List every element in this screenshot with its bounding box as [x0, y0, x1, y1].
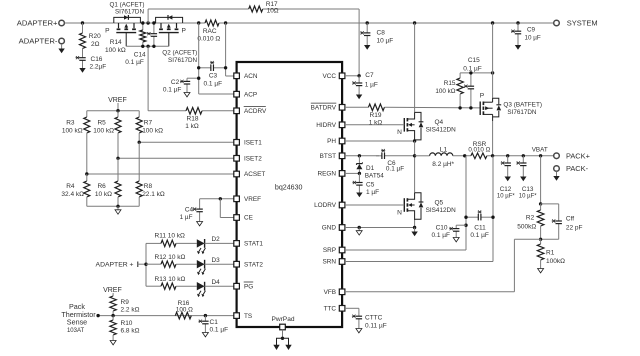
wire SRP	[345, 156, 466, 250]
wire Cff branch top	[541, 204, 559, 217]
svg-text:C9: C9	[527, 27, 536, 34]
resistor RAC	[197, 20, 220, 42]
svg-text:C12: C12	[500, 186, 512, 193]
ground (C10)	[453, 236, 459, 242]
ground (C9)	[515, 44, 521, 50]
node SRN sense junction	[491, 154, 494, 157]
pin HIDRV	[316, 122, 345, 129]
node ISET2 tap	[116, 157, 119, 160]
svg-text:ADAPTER+: ADAPTER+	[17, 19, 58, 28]
transistor Q3 (BATFET)	[480, 93, 542, 121]
svg-text:C13: C13	[522, 186, 534, 193]
pin TS	[234, 313, 252, 320]
svg-text:ACDRV: ACDRV	[244, 108, 267, 115]
svg-text:10 µF: 10 µF	[377, 37, 394, 44]
ground (R10)	[110, 339, 116, 345]
svg-text:10Ω: 10Ω	[267, 7, 279, 14]
wire VFB	[345, 239, 541, 291]
svg-text:Cff: Cff	[566, 216, 574, 223]
svg-text:R5: R5	[97, 119, 106, 126]
node C11 right junction	[491, 216, 494, 219]
wire Q3 drain	[492, 121, 494, 156]
svg-text:1 µF: 1 µF	[366, 189, 379, 196]
wire PH riser	[414, 141, 416, 193]
svg-text:TS: TS	[244, 313, 252, 320]
resistor R5	[93, 111, 121, 159]
node C8 junction	[366, 21, 369, 24]
svg-text:SRP: SRP	[323, 247, 336, 254]
svg-text:PACK+: PACK+	[566, 151, 590, 160]
transistor Q2 (ACFET)	[156, 15, 198, 64]
node adapter junction	[81, 21, 84, 24]
svg-text:R2: R2	[526, 214, 535, 221]
svg-text:P: P	[105, 27, 110, 34]
capacitor C7	[352, 72, 378, 93]
resistor R2	[517, 204, 544, 239]
node C3 left junction	[197, 66, 200, 69]
ground (ADAPTER-)	[58, 44, 64, 53]
node C2 junction	[197, 77, 200, 80]
ground (C16)	[79, 65, 85, 73]
svg-text:1 µF: 1 µF	[180, 214, 193, 221]
node GND stub junction	[358, 226, 361, 229]
pin VREF	[234, 196, 261, 203]
svg-text:Q3 (BATFET): Q3 (BATFET)	[503, 102, 542, 109]
wire RAC-right sense	[226, 23, 234, 76]
resistor R18	[185, 108, 202, 130]
svg-text:1 kΩ: 1 kΩ	[185, 123, 199, 130]
svg-text:2.2 kΩ: 2.2 kΩ	[121, 307, 140, 314]
node PH junction	[413, 139, 416, 142]
svg-text:0.1 µF: 0.1 µF	[163, 86, 182, 93]
node ADAPTER- terminal	[19, 37, 65, 46]
svg-text:0.1 µF: 0.1 µF	[470, 232, 489, 239]
pin ACN	[234, 73, 258, 80]
ground (C13)	[520, 177, 526, 182]
svg-text:Sense: Sense	[67, 318, 87, 327]
pin STAT1	[234, 241, 264, 248]
resistor R1	[537, 239, 565, 266]
svg-text:1 µF: 1 µF	[365, 82, 378, 89]
svg-text:Q5: Q5	[434, 200, 443, 207]
svg-text:22.1 kΩ: 22.1 kΩ	[142, 191, 165, 198]
ground (C8)	[364, 44, 370, 50]
svg-text:SIS412DN: SIS412DN	[426, 207, 457, 214]
capacitor C13	[516, 156, 537, 200]
pin ACDRV	[234, 107, 267, 115]
node VREF label (R9)	[103, 287, 122, 296]
resistor R13	[146, 276, 197, 290]
svg-text:R6: R6	[97, 183, 106, 190]
node SRP sense junction	[463, 154, 466, 157]
pin PH	[327, 138, 345, 145]
diode D2 (LED)	[197, 236, 234, 254]
wire RAC-left sense	[199, 23, 234, 94]
resistor R8	[136, 142, 165, 206]
svg-text:PACK-: PACK-	[566, 164, 589, 173]
wire GND	[345, 227, 415, 229]
svg-text:STAT1: STAT1	[244, 241, 263, 248]
pin STAT2	[234, 261, 264, 268]
svg-text:R8: R8	[144, 183, 153, 190]
pin GND	[322, 225, 345, 232]
wire VBAT to R2	[540, 156, 542, 204]
svg-text:VBAT: VBAT	[532, 147, 548, 154]
svg-text:R14: R14	[110, 39, 122, 46]
svg-text:C15: C15	[468, 57, 480, 64]
capacitor C16	[76, 54, 107, 70]
svg-text:R1: R1	[546, 250, 555, 257]
wire L1 to RSR	[453, 155, 471, 157]
ground (C7)	[356, 93, 362, 100]
svg-text:R10: R10	[121, 320, 133, 327]
svg-text:CE: CE	[244, 215, 253, 222]
diode D3 (LED)	[197, 257, 234, 275]
wire CE	[220, 199, 234, 218]
wire TS row	[98, 315, 234, 317]
wire Q3 riser	[492, 23, 494, 98]
svg-text:0.1 µF: 0.1 µF	[204, 80, 223, 87]
ground (C1)	[202, 331, 208, 337]
pin VFB	[324, 289, 345, 296]
node C12 junction	[506, 154, 509, 157]
pin BATDRV	[311, 103, 345, 111]
diode D1 BAT54	[356, 156, 384, 180]
node C11 left junction	[464, 216, 467, 219]
resistor R14	[105, 23, 146, 54]
svg-text:R11 10 kΩ: R11 10 kΩ	[155, 233, 186, 240]
svg-text:STAT2: STAT2	[244, 261, 263, 268]
svg-text:22 pF: 22 pF	[566, 224, 583, 231]
svg-text:CTTC: CTTC	[365, 315, 383, 322]
node PACK+ terminal	[554, 151, 590, 160]
wire gate rail	[126, 45, 169, 47]
svg-text:D4: D4	[212, 279, 221, 286]
svg-text:100 Ω: 100 Ω	[176, 306, 193, 313]
svg-text:BTST: BTST	[320, 153, 336, 160]
wire VBAT rail	[487, 155, 554, 157]
node Q3 riser junction	[491, 21, 494, 24]
svg-text:VFB: VFB	[324, 289, 336, 296]
resistor R20	[80, 23, 102, 54]
svg-text:bq24630: bq24630	[275, 184, 303, 192]
pin ACP	[234, 91, 257, 98]
svg-text:0.1 µF: 0.1 µF	[386, 166, 404, 173]
svg-text:BAT54: BAT54	[365, 173, 385, 180]
svg-text:R13 10 kΩ: R13 10 kΩ	[155, 276, 186, 283]
svg-text:C16: C16	[91, 56, 103, 63]
node C3 right junction	[224, 66, 227, 69]
svg-text:0.1 µF: 0.1 µF	[463, 65, 482, 72]
wire BATDRV	[345, 106, 480, 109]
capacitor C11	[466, 210, 493, 239]
svg-text:N: N	[397, 209, 402, 216]
wire VCC	[345, 75, 359, 77]
wire VREF pin	[200, 198, 234, 200]
wire PH to L1	[415, 155, 430, 157]
svg-text:0.010 Ω: 0.010 Ω	[468, 146, 490, 153]
svg-text:VCC: VCC	[323, 73, 337, 80]
resistor R3	[62, 111, 90, 174]
ground (CTTC)	[356, 327, 362, 333]
svg-text:R9: R9	[121, 299, 130, 306]
svg-text:R4: R4	[66, 183, 75, 190]
svg-text:100 kΩ: 100 kΩ	[105, 47, 126, 54]
ground (PwrPad)	[273, 330, 291, 350]
node Q4 riser junction	[413, 21, 416, 24]
node Q5 source junction	[413, 226, 416, 229]
pin LODRV	[314, 202, 345, 209]
svg-text:BATDRV: BATDRV	[311, 105, 337, 112]
capacitor C15	[463, 57, 482, 108]
capacitor C6	[376, 149, 415, 173]
node R9-R10 junction	[111, 314, 114, 317]
wire ADAPTER+ rail	[65, 22, 114, 24]
ground (R1)	[538, 266, 544, 273]
svg-text:ADAPTER-: ADAPTER-	[19, 37, 58, 46]
svg-text:D3: D3	[212, 257, 221, 264]
pin PwrPad	[271, 316, 294, 330]
svg-text:100 kΩ: 100 kΩ	[62, 127, 83, 134]
svg-text:RAC: RAC	[203, 28, 217, 35]
ground (C12)	[505, 177, 511, 182]
diode D4 (LED)	[197, 279, 234, 297]
svg-text:6.8 kΩ: 6.8 kΩ	[121, 327, 140, 334]
svg-text:10 kΩ: 10 kΩ	[95, 191, 112, 198]
wire BTST	[345, 155, 379, 157]
transistor Q1 (ACFET)	[105, 2, 144, 47]
svg-text:P: P	[182, 27, 187, 34]
wire system rail	[219, 22, 555, 24]
node VREF-CE junction	[219, 197, 222, 200]
capacitor C10	[431, 224, 466, 239]
wire ISET2	[118, 157, 234, 159]
node rail junctions	[141, 21, 155, 48]
wire ACSET	[87, 173, 234, 175]
wire divider top rail	[87, 110, 139, 112]
svg-text:100 kΩ: 100 kΩ	[93, 127, 114, 134]
wire common drain rail	[114, 22, 205, 24]
svg-text:SI7617DN: SI7617DN	[115, 9, 145, 16]
node VCC junction	[357, 74, 360, 77]
svg-text:ACN: ACN	[244, 73, 258, 80]
pin PG	[234, 282, 253, 290]
capacitor C9	[511, 23, 541, 44]
node R2 top junction	[539, 202, 542, 205]
node R2 bottom junction	[539, 238, 542, 241]
svg-text:0.1 µF: 0.1 µF	[210, 327, 229, 334]
node REGN junction	[358, 172, 361, 175]
resistor R7	[136, 111, 163, 143]
svg-text:R20: R20	[89, 33, 101, 40]
svg-text:8.2 µH*: 8.2 µH*	[432, 161, 454, 168]
wire SRN	[345, 156, 493, 262]
pin ISET2	[234, 156, 262, 163]
node VBAT junction	[532, 147, 548, 158]
capacitor C2	[163, 78, 199, 93]
node VREF junction	[116, 109, 119, 112]
wire HIDRV	[345, 124, 404, 126]
svg-text:SYSTEM: SYSTEM	[567, 19, 598, 28]
resistor R17	[148, 1, 359, 76]
node C9 junction	[516, 21, 519, 24]
svg-text:L1: L1	[440, 146, 448, 153]
node VREF label	[108, 97, 127, 111]
svg-text:C5: C5	[366, 182, 375, 189]
wire REGN	[345, 172, 360, 174]
pin VCC	[323, 73, 345, 80]
wire ISET1	[139, 141, 234, 143]
resistor R19	[368, 104, 384, 126]
svg-text:Q1 (ACFET): Q1 (ACFET)	[110, 2, 145, 9]
node C15 top junction	[469, 71, 472, 74]
transistor Q5	[397, 193, 456, 220]
wire R15C15 top	[460, 72, 493, 74]
resistor R10	[110, 316, 140, 339]
wire ACDRV	[148, 46, 234, 111]
svg-text:10 µF: 10 µF	[525, 35, 541, 42]
svg-text:100kΩ: 100kΩ	[546, 258, 565, 265]
svg-text:0.010 Ω: 0.010 Ω	[197, 35, 220, 42]
wire Cff branch bottom	[541, 238, 559, 240]
capacitor C14	[125, 23, 157, 66]
node ACSET tap	[85, 172, 88, 175]
svg-text:PG: PG	[244, 283, 253, 290]
svg-text:D1: D1	[366, 165, 375, 172]
svg-text:R12 10 kΩ: R12 10 kΩ	[155, 254, 186, 261]
resistor R15	[435, 73, 463, 108]
svg-text:C11: C11	[474, 224, 486, 231]
svg-text:C14: C14	[134, 51, 146, 58]
svg-text:D2: D2	[212, 236, 221, 243]
node Pack Thermistor label	[61, 302, 96, 334]
pin BTST	[320, 153, 345, 160]
wire LED rail	[145, 243, 147, 286]
node C1 junction	[204, 314, 207, 317]
pin SRN	[323, 259, 345, 266]
svg-text:C2: C2	[171, 79, 180, 86]
svg-text:GND: GND	[322, 225, 337, 232]
svg-text:R18: R18	[187, 115, 199, 122]
node divider gnd junction	[116, 205, 119, 208]
ground (C5)	[356, 191, 362, 197]
svg-text:ISET1: ISET1	[244, 140, 262, 147]
resistor R12	[146, 254, 197, 268]
svg-text:C10: C10	[436, 224, 448, 231]
node C10 tap junction	[464, 224, 467, 227]
pin ACSET	[234, 171, 266, 178]
svg-text:103AT: 103AT	[67, 328, 85, 334]
ground (GND pin)	[356, 228, 362, 236]
svg-text:10 µF*: 10 µF*	[519, 194, 537, 200]
svg-text:C8: C8	[377, 30, 386, 37]
svg-text:VREF: VREF	[244, 196, 261, 203]
svg-text:R3: R3	[66, 119, 75, 126]
svg-text:2.2µF: 2.2µF	[90, 63, 107, 70]
wire divider bottom rail	[87, 205, 139, 207]
capacitor C3	[199, 61, 226, 87]
capacitor C1	[198, 316, 228, 334]
svg-text:500kΩ: 500kΩ	[517, 223, 536, 230]
wire TTC	[345, 308, 359, 313]
svg-text:R19: R19	[370, 112, 382, 119]
svg-text:SRN: SRN	[323, 259, 337, 266]
node thermistor stub	[96, 314, 99, 317]
node SYSTEM terminal	[554, 19, 598, 28]
ground (C4)	[197, 219, 203, 226]
svg-text:0.1 µF: 0.1 µF	[125, 59, 144, 66]
pin CE	[234, 215, 253, 222]
svg-text:C3: C3	[209, 73, 218, 80]
svg-text:10 µF*: 10 µF*	[497, 194, 515, 200]
svg-text:C7: C7	[365, 72, 374, 79]
svg-text:C1: C1	[210, 319, 219, 326]
wire Q5 source	[414, 220, 416, 227]
resistor R11	[146, 233, 197, 247]
svg-text:0.11 µF: 0.11 µF	[365, 323, 387, 330]
svg-text:VREF: VREF	[103, 287, 122, 294]
svg-text:C4: C4	[185, 207, 194, 214]
svg-text:ACSET: ACSET	[244, 171, 265, 178]
svg-text:R7: R7	[144, 119, 153, 126]
svg-text:N: N	[397, 129, 402, 136]
svg-text:LODRV: LODRV	[314, 202, 337, 209]
transistor Q4	[397, 112, 456, 141]
svg-text:SI7617DN: SI7617DN	[168, 57, 198, 64]
ground (C2)	[184, 90, 190, 97]
resistor R6	[95, 158, 121, 206]
node C13 junction	[522, 154, 525, 157]
capacitor C8	[360, 23, 393, 44]
ground (divider)	[115, 206, 121, 214]
svg-text:R15: R15	[444, 80, 456, 87]
resistor R4	[61, 174, 89, 206]
node RAC-right junction	[224, 21, 227, 24]
ground (PACK-)	[553, 172, 559, 181]
pin REGN	[318, 171, 345, 178]
svg-text:ISET2: ISET2	[244, 156, 262, 163]
wire system riser to Q4	[414, 23, 416, 112]
capacitor C12	[497, 156, 515, 200]
node ADAPTER+ tap	[96, 262, 148, 269]
svg-text:HIDRV: HIDRV	[316, 122, 337, 129]
resistor R16	[175, 300, 193, 319]
svg-text:100 kΩ: 100 kΩ	[142, 127, 163, 134]
node BTST-PH junction	[413, 154, 416, 157]
svg-text:PwrPad: PwrPad	[271, 316, 294, 323]
svg-text:100 kΩ: 100 kΩ	[435, 88, 455, 95]
node RAC-left junction	[197, 21, 200, 24]
wire LODRV	[345, 204, 404, 206]
svg-text:SIS412DN: SIS412DN	[426, 127, 457, 134]
node PACK- terminal	[554, 164, 589, 173]
node R15 bottom junction	[458, 106, 461, 109]
wire PH	[345, 140, 415, 142]
svg-text:ADAPTER +: ADAPTER +	[96, 262, 134, 269]
svg-text:Q4: Q4	[434, 119, 443, 126]
node BTST junction	[358, 154, 361, 157]
svg-text:0.1 µF: 0.1 µF	[431, 232, 450, 239]
svg-text:P: P	[480, 93, 485, 100]
node Q3 riser top junction	[491, 71, 494, 74]
resistor RSR	[468, 141, 490, 159]
inductor L1	[430, 146, 455, 167]
capacitor C5	[352, 173, 379, 195]
capacitor Cff	[552, 216, 583, 240]
svg-text:PH: PH	[327, 138, 336, 145]
svg-text:TTC: TTC	[324, 306, 337, 313]
op-amp U1 bq24630 body	[237, 62, 343, 327]
